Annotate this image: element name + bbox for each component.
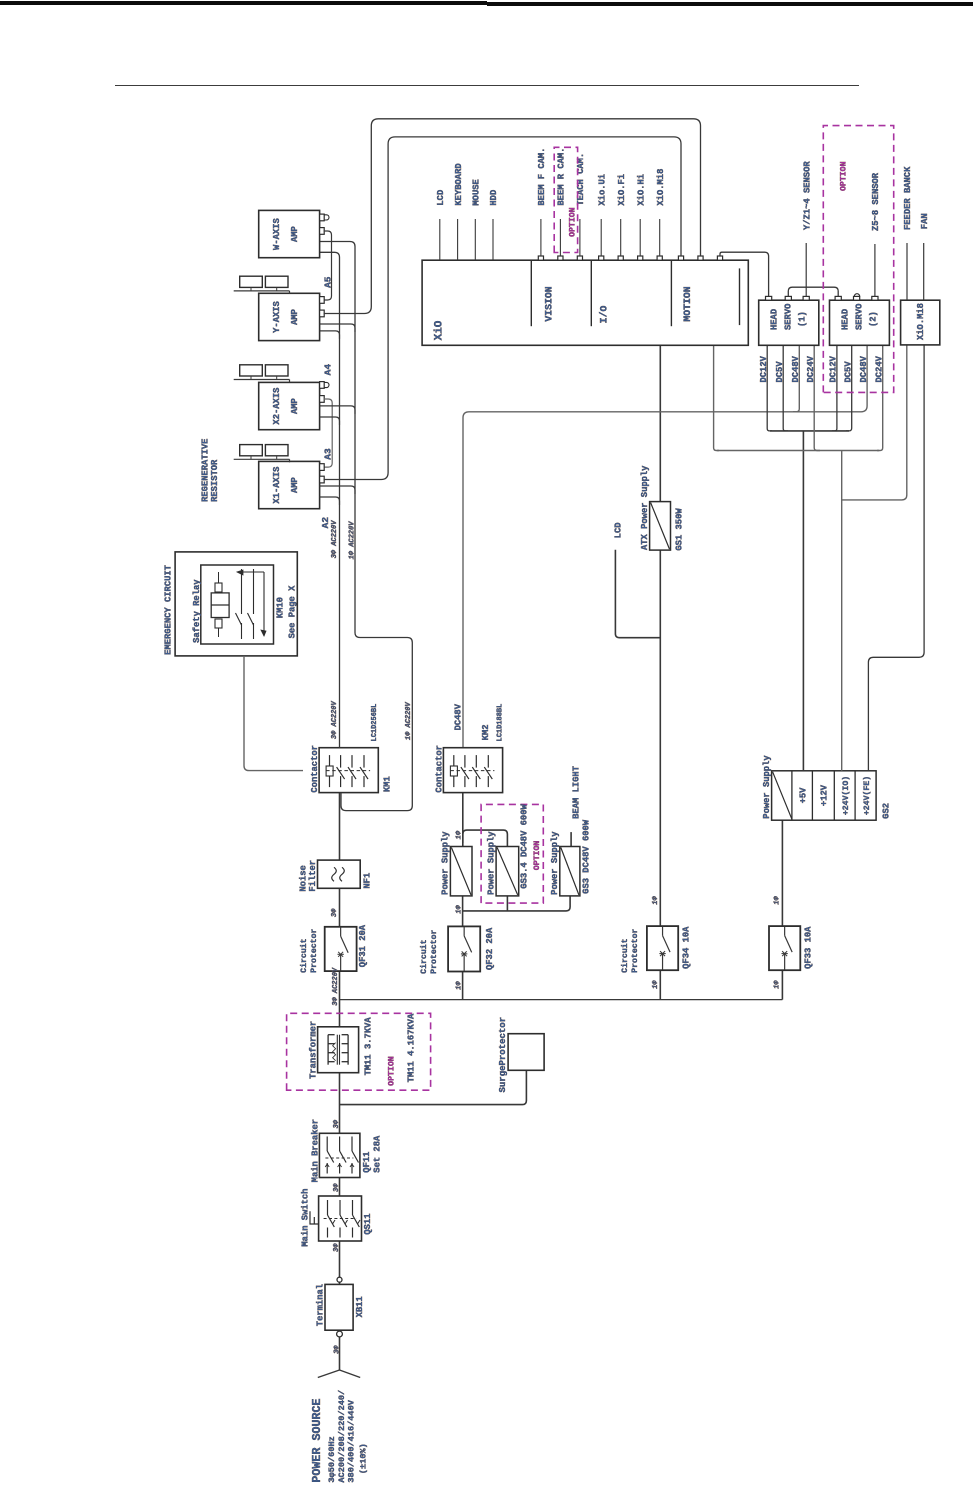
svg-text:+24V(FE): +24V(FE) (862, 776, 872, 815)
svg-text:DC24V: DC24V (875, 355, 885, 382)
svg-text:Main Breaker: Main Breaker (310, 1119, 320, 1182)
svg-text:EMERGENCY CIRCUIT: EMERGENCY CIRCUIT (164, 564, 174, 654)
svg-text:Protector: Protector (430, 929, 439, 973)
svg-text:GS2: GS2 (882, 803, 892, 819)
svg-text:3Φ: 3Φ (334, 1345, 342, 1354)
svg-text:Power Supply: Power Supply (550, 831, 560, 895)
svg-text:DC24V: DC24V (806, 355, 816, 382)
svg-text:DC5V: DC5V (775, 361, 785, 383)
svg-text:Circuit: Circuit (620, 938, 630, 972)
svg-text:NF1: NF1 (363, 873, 373, 889)
svg-text:KM10: KM10 (276, 597, 286, 618)
svg-text:380/400/416/440V: 380/400/416/440V (347, 1399, 357, 1482)
svg-text:+24V(IO): +24V(IO) (841, 776, 851, 815)
svg-text:Power Supply: Power Supply (441, 831, 451, 895)
svg-text:GS3.4 DC48V 600W: GS3.4 DC48V 600W (520, 804, 530, 889)
svg-text:1Φ AC220V: 1Φ AC220V (348, 521, 356, 560)
svg-text:QF11: QF11 (362, 1152, 372, 1173)
svg-text:3Φ: 3Φ (333, 1243, 341, 1252)
svg-text:FAN: FAN (920, 213, 930, 229)
svg-text:OPTION: OPTION (569, 207, 578, 237)
svg-text:RESISTOR: RESISTOR (210, 459, 220, 502)
svg-text:QF32 20A: QF32 20A (485, 927, 495, 970)
svg-text:XiO: XiO (434, 320, 446, 340)
svg-text:Protector: Protector (310, 928, 319, 972)
svg-text:3Φ: 3Φ (333, 1119, 341, 1128)
svg-text:TM11 3.7KVA: TM11 3.7KVA (364, 1017, 374, 1076)
svg-text:LC1D256BL: LC1D256BL (371, 704, 379, 742)
svg-text:1Φ: 1Φ (455, 981, 463, 990)
svg-text:ATX Power Supply: ATX Power Supply (640, 465, 650, 550)
svg-text:AMP: AMP (290, 226, 300, 242)
svg-text:1Φ: 1Φ (774, 980, 782, 989)
svg-text:Main Switch: Main Switch (300, 1189, 310, 1247)
svg-text:VISION: VISION (544, 286, 555, 321)
svg-text:XB11: XB11 (355, 1296, 365, 1317)
svg-text:HEAD: HEAD (841, 309, 851, 330)
svg-text:DC48V: DC48V (859, 355, 869, 382)
svg-text:SERVO: SERVO (855, 304, 865, 330)
svg-text:Power Supply: Power Supply (487, 831, 497, 895)
svg-text:XiO.Fi: XiO.Fi (617, 174, 627, 206)
svg-text:Transformer: Transformer (309, 1021, 319, 1079)
svg-text:DC48V: DC48V (454, 703, 464, 730)
svg-text:AMP: AMP (290, 309, 300, 325)
svg-text:W-AXIS: W-AXIS (272, 218, 282, 250)
svg-text:KM2: KM2 (481, 724, 491, 740)
svg-text:+5V: +5V (798, 787, 808, 804)
svg-text:3Φ: 3Φ (331, 908, 339, 917)
svg-text:Xio.Ui: Xio.Ui (597, 174, 607, 206)
svg-text:Protector: Protector (631, 928, 640, 972)
svg-text:BEEM F CAM.: BEEM F CAM. (537, 148, 547, 206)
svg-text:Contactor: Contactor (435, 745, 445, 793)
svg-text:HDD: HDD (489, 190, 499, 206)
svg-text:POWER SOURCE: POWER SOURCE (310, 1398, 324, 1482)
svg-text:Contactor: Contactor (310, 745, 320, 793)
svg-text:Filter: Filter (308, 860, 318, 892)
svg-text:REGENERATIVE: REGENERATIVE (201, 439, 211, 502)
svg-text:HEAD: HEAD (770, 309, 780, 330)
svg-text:1Φ: 1Φ (455, 830, 463, 839)
svg-text:OPTION: OPTION (533, 841, 542, 871)
svg-text:3Φ AC220V: 3Φ AC220V (331, 700, 339, 739)
svg-text:OPTION: OPTION (388, 1056, 397, 1086)
svg-text:(2): (2) (869, 311, 879, 327)
svg-text:OPTION: OPTION (840, 161, 849, 191)
svg-text:I/O: I/O (599, 306, 610, 324)
svg-text:GS3 DC48V 600W: GS3 DC48V 600W (582, 819, 592, 894)
svg-text:AMP: AMP (290, 477, 300, 493)
svg-text:X1-AXIS: X1-AXIS (272, 467, 282, 504)
svg-text:3Φ AC220V: 3Φ AC220V (332, 967, 340, 1006)
svg-text:FEEDER BANCK: FEEDER BANCK (903, 166, 913, 230)
svg-text:1Φ: 1Φ (652, 895, 660, 904)
svg-text:MOTION: MOTION (682, 286, 693, 321)
svg-text:Circuit: Circuit (419, 939, 429, 973)
svg-text:SurgeProtector: SurgeProtector (498, 1017, 508, 1093)
svg-text:DC5V: DC5V (844, 361, 854, 383)
svg-text:1Φ AC220V: 1Φ AC220V (405, 701, 413, 740)
svg-text:Terminal: Terminal (316, 1284, 326, 1326)
svg-text:DC48V: DC48V (791, 355, 801, 382)
svg-text:Noise: Noise (299, 865, 309, 891)
svg-text:QF33 10A: QF33 10A (804, 926, 814, 969)
svg-text:Y-AXIS: Y-AXIS (272, 301, 282, 333)
svg-text:A5: A5 (323, 276, 334, 288)
svg-text:3Φ AC220V: 3Φ AC220V (331, 520, 339, 559)
svg-text:A4: A4 (323, 364, 334, 376)
svg-text:BEAM LIGHT: BEAM LIGHT (572, 765, 582, 819)
svg-text:XiO.Mi8: XiO.Mi8 (656, 169, 666, 206)
svg-text:A3: A3 (323, 448, 334, 460)
svg-text:QS11: QS11 (363, 1213, 373, 1234)
svg-text:Z5~8 SENSOR: Z5~8 SENSOR (871, 172, 881, 231)
svg-text:MOUSE: MOUSE (472, 179, 482, 205)
svg-text:Y/Z1~4 SENSOR: Y/Z1~4 SENSOR (802, 161, 812, 230)
svg-text:3Φ: 3Φ (333, 1183, 341, 1192)
svg-text:Set 28A: Set 28A (372, 1135, 382, 1173)
svg-text:(1): (1) (798, 311, 808, 327)
svg-text:LC1D188BL: LC1D188BL (497, 704, 505, 742)
svg-text:LCD: LCD (436, 190, 446, 206)
svg-text:Safety Relay: Safety Relay (192, 579, 202, 643)
svg-text:KM1: KM1 (383, 776, 393, 792)
svg-text:A2: A2 (320, 517, 331, 529)
svg-text:AC200/208/220/240/: AC200/208/220/240/ (337, 1390, 347, 1483)
svg-text:Power Supply: Power Supply (762, 755, 772, 819)
svg-text:3φ50/60Hz: 3φ50/60Hz (327, 1436, 337, 1482)
svg-text:Circuit: Circuit (299, 938, 309, 972)
svg-text:1Φ: 1Φ (652, 980, 660, 989)
svg-text:BEEM R CAM.: BEEM R CAM. (557, 148, 567, 206)
svg-text:QF31 20A: QF31 20A (358, 924, 368, 967)
svg-text:1Φ: 1Φ (455, 904, 463, 913)
svg-text:GS1 350W: GS1 350W (675, 508, 685, 551)
svg-text:X2-AXIS: X2-AXIS (272, 388, 282, 425)
svg-text:KEYBOARD: KEYBOARD (454, 163, 464, 205)
svg-text:(±10%): (±10%) (358, 1443, 368, 1474)
svg-text:+12V: +12V (820, 784, 830, 806)
svg-text:XiO.Mi8: XiO.Mi8 (916, 303, 926, 340)
svg-text:1Φ: 1Φ (774, 895, 782, 904)
svg-text:LCD: LCD (614, 522, 624, 538)
svg-text:DC12V: DC12V (829, 355, 839, 382)
svg-text:TM11 4.167KVA: TM11 4.167KVA (407, 1013, 417, 1082)
svg-text:SERVO: SERVO (784, 304, 794, 330)
svg-text:QF34 10A: QF34 10A (682, 926, 692, 969)
svg-text:See Page X: See Page X (288, 585, 298, 639)
svg-text:DC12V: DC12V (759, 355, 769, 382)
svg-text:XiO.Hi: XiO.Hi (636, 174, 646, 206)
svg-text:AMP: AMP (290, 398, 300, 414)
